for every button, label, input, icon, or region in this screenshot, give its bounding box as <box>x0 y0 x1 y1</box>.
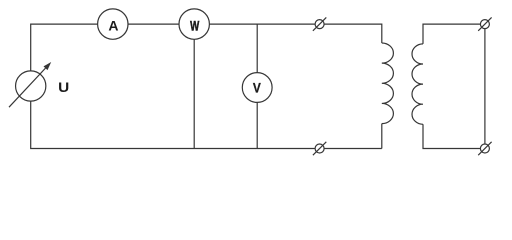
transformer secondary winding <box>412 44 423 124</box>
transformer primary winding <box>382 43 394 124</box>
wattmeter W <box>179 9 209 39</box>
wire: primary bottom leg <box>381 124 383 149</box>
wire: input top terminal to transformer primary <box>324 24 382 43</box>
wire: wattmeter to input terminal (top) <box>209 23 315 25</box>
wire: voltmeter branch, top section <box>256 24 258 73</box>
svg-text:V: V <box>253 79 261 95</box>
wire: left rail top (source to top-left corner, then to ammeter) <box>31 24 98 71</box>
svg-text:W: W <box>190 18 200 34</box>
wire: bottom rail from source to input bottom terminal <box>31 101 315 148</box>
terminal: input top (circle with slash) <box>313 17 326 30</box>
terminal: output top (circle with slash) <box>478 17 491 30</box>
wire: wattmeter voltage-coil drop to bottom rail <box>193 39 195 148</box>
ammeter A <box>98 9 128 39</box>
voltage source U (variable source: circle with diagonal arrow) <box>9 62 51 107</box>
wire: input bottom terminal to transformer primary <box>324 148 382 150</box>
terminal: output bottom (circle with slash) <box>478 142 491 155</box>
voltmeter V <box>242 73 272 103</box>
wire: transformer secondary bottom to output terminal <box>423 124 480 148</box>
svg-text:U: U <box>58 81 69 96</box>
wire: output right edge between terminals <box>484 29 486 144</box>
wire: transformer secondary top to output terminal <box>423 24 480 44</box>
svg-text:A: A <box>108 18 118 34</box>
wire: ammeter to wattmeter <box>128 23 179 25</box>
wire: voltmeter branch, bottom section <box>256 102 258 148</box>
terminal: input bottom (circle with slash) <box>313 142 326 155</box>
